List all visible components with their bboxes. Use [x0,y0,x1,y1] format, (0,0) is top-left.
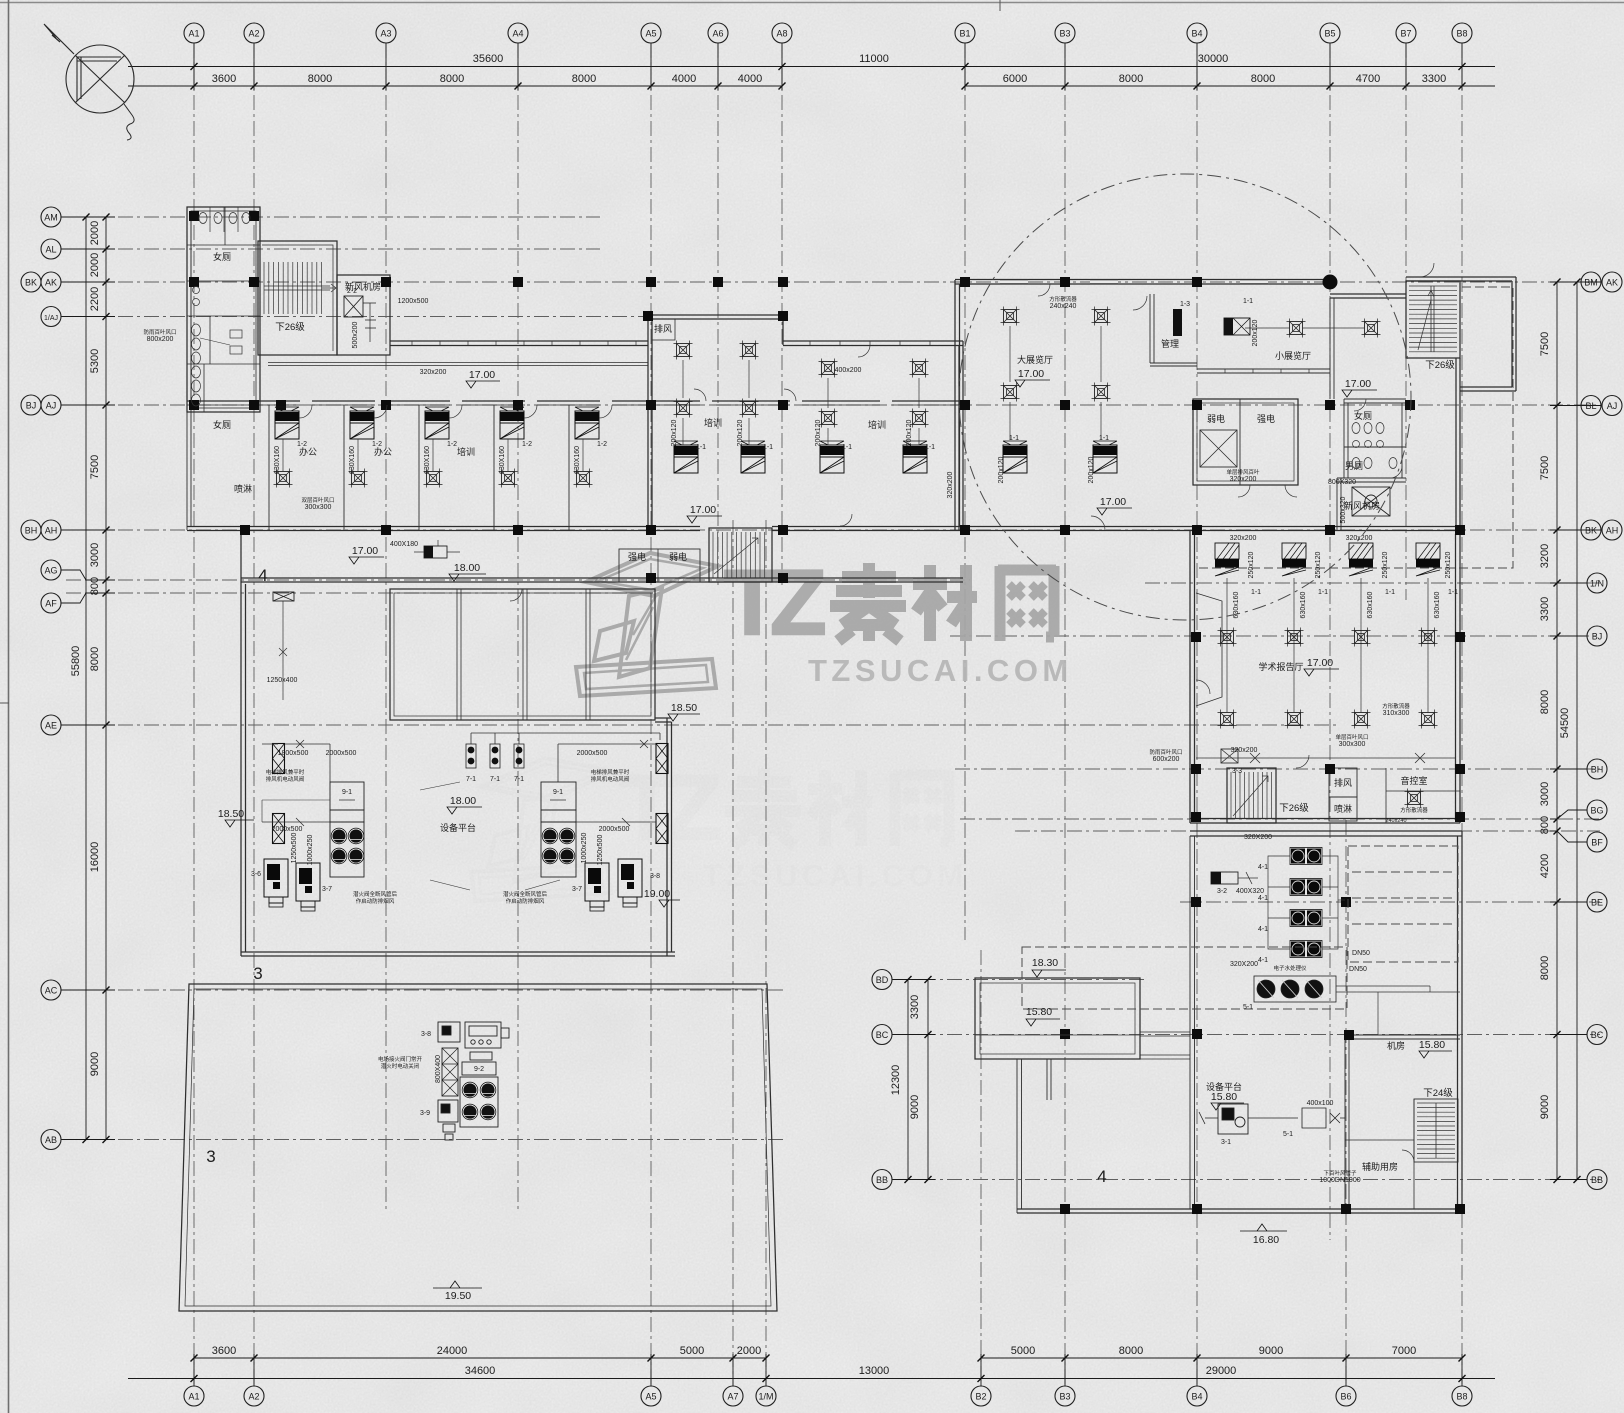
svg-text:13000: 13000 [859,1365,890,1377]
svg-text:AH: AH [45,526,58,536]
equipment platform north-east step [655,718,672,722]
svg-text:电子水处理仪: 电子水处理仪 [1273,964,1307,972]
svg-text:3300: 3300 [1422,73,1446,85]
svg-text:BJ: BJ [1592,632,1603,642]
faint second watermark [471,757,968,901]
lecture hall west wall [1190,530,1195,823]
svg-text:3: 3 [253,964,262,983]
stair down24 box [1414,1099,1458,1162]
svg-text:320x200: 320x200 [1346,535,1373,542]
svg-text:1-1: 1-1 [1251,589,1261,596]
svg-text:300x300: 300x300 [1339,741,1366,748]
svg-text:弱电: 弱电 [1207,413,1225,424]
svg-text:400x200: 400x200 [835,367,862,374]
left segment dim line [105,217,107,1140]
watermark 材 glyph [913,565,977,641]
grid line A5 [650,43,652,1386]
svg-text:设备平台: 设备平台 [1206,1081,1242,1092]
svg-text:4-1: 4-1 [1258,957,1268,964]
watermark 素 glyph [830,563,906,641]
fan room 4-1 pairs [1290,848,1322,865]
svg-text:1250x400: 1250x400 [267,677,298,684]
right overall dim line [1576,282,1578,1180]
lecture hall south wall [1190,819,1460,824]
top bubble stems [193,43,195,90]
compass / north arrow [44,24,134,140]
B toilets fixtures [1352,423,1397,469]
sound control diffuser [1405,789,1424,808]
door arcs corridor [299,263,1434,1162]
svg-text:4700: 4700 [1356,73,1380,85]
svg-text:3300: 3300 [909,995,921,1019]
svg-text:3-8: 3-8 [650,873,660,880]
svg-text:16000: 16000 [89,842,101,873]
svg-text:辅助用房: 辅助用房 [1362,1161,1398,1172]
svg-text:800: 800 [89,577,101,595]
grid line A1 [193,43,195,1386]
B wing window openings on north wall [1000,280,1268,283]
rotated duct texts [274,319,1452,1083]
office fan coils [275,407,299,439]
svg-text:1/N: 1/N [1590,579,1604,589]
platform small units [264,859,288,907]
B wing top-right stair walls [1406,281,1460,358]
round column at B5 [1323,275,1338,290]
corridor bottom wall (AJ) with door gaps [187,400,963,402]
fan room band walls below lecture hall [1190,831,1462,836]
office duct drop lines [283,439,583,471]
svg-text:学术报告厅: 学术报告厅 [1258,661,1303,672]
svg-text:800: 800 [1539,816,1551,834]
svg-text:3-8: 3-8 [421,1031,431,1038]
AHU 9-1 left [330,782,364,877]
small exhibition east wall [1330,298,1334,399]
B wing north wall B5-B7 [1330,294,1406,298]
services block (electric rooms + lift) [1193,399,1298,485]
management room walls [1150,294,1197,366]
svg-text:30000: 30000 [1198,53,1229,65]
right axis bubbles [1581,272,1601,292]
svg-text:3-2: 3-2 [1217,888,1227,895]
svg-text:AJ: AJ [46,401,57,411]
svg-text:2000x500: 2000x500 [272,826,303,833]
svg-text:19.00: 19.00 [644,888,670,900]
svg-text:3-1: 3-1 [1221,1139,1231,1146]
svg-text:1250x500: 1250x500 [597,835,604,866]
link stair treads [713,532,765,578]
svg-text:下26级: 下26级 [1279,802,1309,814]
svg-text:35600: 35600 [473,53,504,65]
svg-text:2000: 2000 [89,253,101,277]
svg-text:1200x500: 1200x500 [398,298,429,305]
svg-text:55800: 55800 [70,646,82,677]
toilet block outer wall [187,207,260,412]
svg-text:7-1: 7-1 [490,776,500,783]
svg-text:4200: 4200 [1539,854,1551,878]
grid row BJ [950,635,1600,637]
B wing north-east corner walls [1406,277,1516,530]
svg-text:18.50: 18.50 [671,702,697,714]
passage walls to canopy [1140,1032,1190,1059]
svg-text:AK: AK [45,278,57,288]
svg-text:4000: 4000 [672,73,696,85]
svg-text:3000: 3000 [89,543,101,567]
svg-text:1-1: 1-1 [1243,298,1253,305]
svg-text:AC: AC [45,986,58,996]
A5-A8 classroom block walls [648,315,783,530]
lecture hall stair [1227,768,1276,823]
svg-text:200x120: 200x120 [1088,456,1095,483]
svg-text:3-7: 3-7 [322,886,332,893]
svg-text:培训: 培训 [868,419,886,430]
grid row AB [66,1139,785,1141]
svg-text:200x120: 200x120 [671,419,678,446]
svg-text:B6: B6 [1340,1392,1351,1402]
svg-text:8000: 8000 [572,73,596,85]
svg-text:320x200: 320x200 [420,369,447,376]
svg-text:8000: 8000 [1251,73,1275,85]
unit 3-2 in fan room [1211,872,1238,884]
svg-text:BD: BD [876,975,889,985]
svg-text:BH: BH [25,526,38,536]
svg-text:800x200: 800x200 [147,336,174,343]
svg-text:2200: 2200 [89,287,101,311]
small exhibition diffusers [1287,319,1306,338]
svg-text:小展览厅: 小展览厅 [1275,350,1311,361]
grid row AF [66,592,660,594]
svg-text:800X400: 800X400 [435,1055,442,1083]
level value texts [218,368,1445,1302]
west exterior wall [187,207,191,530]
svg-text:1000x250: 1000x250 [307,835,314,866]
svg-text:A7: A7 [727,1392,738,1402]
svg-text:1-2: 1-2 [597,441,607,448]
right bubble stems [1550,281,1601,283]
fresh air unit in room A [344,296,376,342]
grid row AK [66,281,1600,283]
left axis bubbles [41,207,61,227]
svg-text:17.00: 17.00 [469,369,495,381]
svg-text:男厕: 男厕 [1345,461,1363,471]
fan room west wall [1190,836,1195,1209]
svg-text:A6: A6 [712,29,723,39]
platform louvers [273,744,285,774]
north window wall A3-A5 [390,341,648,346]
canopy block 18.30 [975,978,1140,1059]
svg-text:2-2: 2-2 [347,288,357,295]
svg-text:17.00: 17.00 [1100,496,1126,508]
svg-text:18.00: 18.00 [454,562,480,574]
svg-text:6000: 6000 [1003,73,1027,85]
svg-text:500x200: 500x200 [352,321,359,348]
svg-text:1250x500: 1250x500 [291,833,298,864]
equipment platform west wall [241,530,246,956]
svg-text:BH: BH [1591,765,1604,775]
svg-text:320x200: 320x200 [1230,535,1257,542]
svg-text:17.00: 17.00 [1018,368,1044,380]
fresh air unit B wing [1352,487,1390,516]
bottom bubble stems [193,1354,195,1386]
svg-text:12300: 12300 [890,1065,902,1096]
svg-text:1-1: 1-1 [842,444,852,451]
svg-text:2000x500: 2000x500 [326,750,357,757]
svg-text:18.00: 18.00 [450,795,476,807]
office ceiling diffusers [274,469,293,488]
svg-text:潜火阀全断风管后: 潜火阀全断风管后 [353,890,398,898]
svg-text:250x120: 250x120 [1248,551,1255,578]
platform duct lines [262,733,660,826]
svg-text:18.30: 18.30 [1032,957,1058,969]
grid row BH [955,768,1600,770]
svg-text:24000: 24000 [437,1345,468,1357]
duct size texts [147,298,1410,1184]
svg-text:管理: 管理 [1161,338,1179,349]
svg-text:1-1: 1-1 [1009,435,1019,442]
grid row BC [895,1034,1600,1036]
left bubble stems [61,216,115,218]
svg-text:1-2: 1-2 [447,441,457,448]
level marks [225,380,1452,1288]
dim ticks left [103,214,110,221]
grid line A3 [385,43,387,1213]
svg-text:2000: 2000 [737,1345,761,1357]
grid row 1/N [1145,582,1600,584]
svg-text:9000: 9000 [909,1095,921,1119]
svg-text:4000: 4000 [738,73,762,85]
grid line B3 [1064,43,1066,1386]
grid row AM [66,216,600,218]
svg-text:培训: 培训 [704,417,722,428]
svg-text:双层百叶风口: 双层百叶风口 [301,496,334,504]
svg-text:1800x500: 1800x500 [278,750,309,757]
bottom overall dim line [128,1378,1495,1380]
grid line B8 [1461,43,1463,1386]
svg-text:400X180: 400X180 [390,541,418,548]
dim ticks bottom [191,1355,198,1362]
stair block A top [258,241,337,355]
svg-text:AM: AM [44,213,58,223]
svg-text:630X160: 630X160 [499,446,506,474]
svg-text:B8: B8 [1456,1392,1467,1402]
svg-text:设备平台: 设备平台 [440,822,476,833]
svg-text:1-3: 1-3 [1180,301,1190,308]
svg-text:单层百叶风口: 单层百叶风口 [1335,733,1368,741]
mixed stair labels [275,321,1455,1099]
svg-text:630x160: 630x160 [1300,591,1307,618]
svg-text:5000: 5000 [1011,1345,1035,1357]
svg-text:BG: BG [1590,806,1603,816]
sound control partition [1386,768,1460,823]
svg-text:4-1: 4-1 [1258,864,1268,871]
svg-text:喷淋: 喷淋 [234,483,252,494]
roof trapezoid outline [179,984,777,1311]
svg-text:AK: AK [1606,278,1618,288]
lecture hall diffusers row1 [1218,628,1237,647]
A5 block fan coils [674,441,698,473]
svg-text:8000: 8000 [89,647,101,671]
stair down-24 treads [1417,1103,1455,1158]
A8 room diffusers and fan coils [819,359,838,378]
fresh air room A (xinfengjifang) [337,275,390,355]
machine room walls [1345,1035,1460,1209]
svg-text:排风机电动风阀: 排风机电动风阀 [591,775,630,783]
grid row BF [1015,830,1600,832]
equipment platform south wall [241,952,675,956]
svg-text:电梯排风兼平时: 电梯排风兼平时 [266,768,305,776]
svg-text:7500: 7500 [89,455,101,479]
bottom segment dim line [194,1357,766,1359]
svg-text:BB: BB [1591,1175,1603,1185]
svg-text:1-1: 1-1 [1385,589,1395,596]
grid line B2 [980,950,982,1386]
svg-text:培训: 培训 [457,446,475,457]
svg-text:1-2: 1-2 [372,441,382,448]
svg-text:3-6: 3-6 [251,871,261,878]
grid line A2 [253,43,255,1386]
toilet block partitions [187,207,260,412]
grid row BD [895,979,1145,981]
svg-text:8000: 8000 [1119,1345,1143,1357]
svg-text:320x200: 320x200 [1231,747,1258,754]
svg-text:4-1: 4-1 [1258,926,1268,933]
svg-text:8000: 8000 [1539,956,1551,980]
svg-text:630X160: 630X160 [424,446,431,474]
svg-text:8000: 8000 [1119,73,1143,85]
svg-text:排风机电动风阀: 排风机电动风阀 [266,775,305,783]
bottom axis bubbles [184,1386,204,1406]
svg-text:排风: 排风 [1334,777,1352,788]
east wall of A8-B1 room [959,341,963,530]
grid line B6 [1345,820,1347,1386]
small exhibition south window wall [1197,369,1330,373]
svg-text:2000x500: 2000x500 [577,750,608,757]
svg-text:BK: BK [25,278,37,288]
svg-text:3200: 3200 [1539,544,1551,568]
svg-text:B1: B1 [959,29,970,39]
svg-text:TZSUCAI.COM: TZSUCAI.COM [808,653,1073,688]
grid line A8 [781,43,783,586]
svg-text:喷淋: 喷淋 [1334,803,1352,814]
svg-text:电场接火阀门常开: 电场接火阀门常开 [378,1055,423,1063]
svg-text:防雨百叶风口: 防雨百叶风口 [1149,748,1182,756]
svg-text:2000: 2000 [89,221,101,245]
svg-text:200x120: 200x120 [998,456,1005,483]
svg-text:7-1: 7-1 [514,776,524,783]
svg-text:作启动防排烟风: 作启动防排烟风 [356,897,395,905]
svg-text:1-1: 1-1 [696,444,706,451]
equip platform top grille [273,592,294,601]
9-2 roof unit cluster [438,1022,509,1140]
svg-text:方形散流器: 方形散流器 [1382,702,1410,710]
svg-text:200x120: 200x120 [737,419,744,446]
svg-text:电梯排风兼平时: 电梯排风兼平时 [591,768,630,776]
svg-text:19.50: 19.50 [445,1290,471,1302]
svg-text:5300: 5300 [89,349,101,373]
B wing west wall [955,280,960,530]
grid row BB [895,1179,1600,1181]
svg-text:7500: 7500 [1539,456,1551,480]
grid line A4 [517,43,519,1213]
svg-text:单层排风百叶: 单层排风百叶 [1226,468,1260,476]
section numbers [206,566,1106,1186]
svg-text:1-1: 1-1 [925,444,935,451]
svg-text:7-1: 7-1 [466,776,476,783]
svg-text:B4: B4 [1191,29,1202,39]
svg-text:9000: 9000 [1259,1345,1283,1357]
lecture hall diffusers row2 [1218,710,1237,729]
right segment dim line [1556,282,1558,1180]
svg-text:320X200: 320X200 [1230,961,1258,968]
south wall of lower-right block [1017,1209,1460,1213]
exhaust room in A5 block [652,319,675,340]
svg-text:A3: A3 [380,29,391,39]
svg-text:15.80: 15.80 [1026,1006,1052,1018]
svg-text:310x300: 310x300 [1383,710,1410,717]
B wing north wall [955,280,1332,285]
left-bottom BD/BC/BB dims [907,980,909,1180]
big exhibition hall diffusers [1001,307,1020,326]
svg-text:A1: A1 [188,1392,199,1402]
svg-text:3600: 3600 [212,1345,236,1357]
svg-text:300x300: 300x300 [305,504,332,511]
watermark logo [576,553,718,696]
svg-text:TZ: TZ [724,552,824,654]
svg-text:1-1: 1-1 [1448,589,1458,596]
auxiliary room partitions [1345,1099,1414,1209]
svg-text:A5: A5 [645,29,656,39]
svg-text:200x120: 200x120 [906,419,913,446]
svg-text:250x120: 250x120 [1315,551,1322,578]
strong/weak electric rooms in link [619,549,700,582]
svg-text:250x120: 250x120 [1382,551,1389,578]
svg-text:11000: 11000 [859,53,889,65]
DN50 pipe lines [1336,986,1460,1035]
grid line B4 [1196,43,1198,1386]
svg-text:200x120: 200x120 [1252,319,1259,346]
svg-text:3-3: 3-3 [1232,768,1242,775]
5-1 pump row [1254,976,1336,1002]
svg-text:A5: A5 [645,1392,656,1402]
grid row BE [1180,901,1600,903]
west wall of lower-right extension [1017,1059,1022,1213]
svg-text:3-9: 3-9 [420,1110,430,1117]
svg-text:1-2: 1-2 [522,441,532,448]
svg-text:15.80: 15.80 [1419,1039,1445,1051]
svg-text:BJ: BJ [26,401,37,411]
svg-text:9-1: 9-1 [342,789,352,796]
svg-text:630x160: 630x160 [1434,591,1441,618]
B wing toilets walls [1344,399,1406,478]
office partition walls [269,405,569,530]
svg-text:16.80: 16.80 [1253,1234,1279,1246]
svg-text:A1: A1 [188,29,199,39]
left inner bubbles BD BC BB [872,970,892,990]
lecture hall duct drops [1227,578,1428,712]
svg-text:800X320: 800X320 [1328,479,1356,486]
svg-text:17.00: 17.00 [352,545,378,557]
grid row AJ [66,404,1600,406]
north window wall A8-B1 [783,341,963,346]
svg-text:3: 3 [206,1147,215,1166]
grid row BG [960,818,1600,820]
svg-text:1000x250: 1000x250 [581,833,588,864]
grid line B7 [1405,43,1407,600]
svg-text:下24级: 下24级 [1423,1087,1453,1099]
svg-text:女厕: 女厕 [213,251,231,262]
svg-text:AB: AB [45,1135,57,1145]
stair A treads [264,262,336,314]
link small unit 3-x [424,546,447,558]
